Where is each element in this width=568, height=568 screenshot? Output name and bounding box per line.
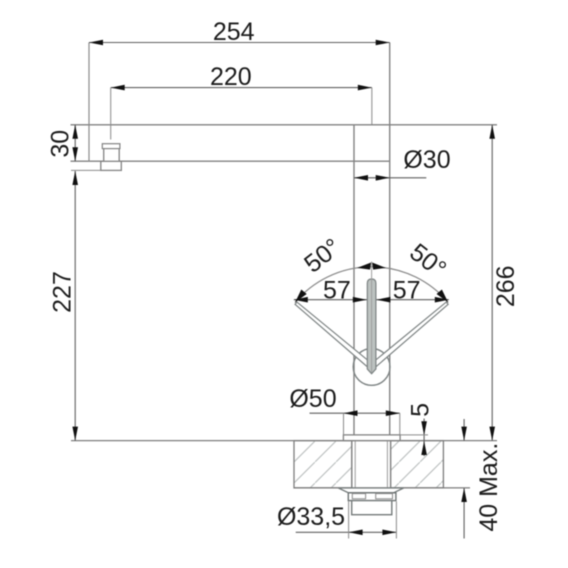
handle lever tilted left — [295, 302, 373, 369]
svg-text:Ø50: Ø50 — [289, 385, 336, 413]
dim 220 arrows — [111, 85, 125, 91]
dim O30 arrows — [354, 175, 368, 181]
dim 5 line — [423, 419, 425, 457]
mounting nut — [348, 493, 396, 501]
svg-text:57: 57 — [393, 276, 421, 304]
dim 254 arrows — [89, 40, 103, 46]
dim 266 line — [491, 125, 493, 441]
base plate (escutcheon) — [343, 435, 400, 441]
svg-text:30: 30 — [47, 130, 75, 158]
handle ball joint circle — [353, 349, 390, 386]
handle lever tilted right — [370, 302, 448, 369]
shank outer thread lines through countertop — [351, 441, 353, 488]
dim 227 top extension (aerator bottom) — [71, 169, 101, 171]
dim 30 arrows — [72, 125, 78, 139]
dim 57 arrows — [294, 297, 308, 303]
dim 40 Max arrows — [461, 427, 467, 441]
nut slot right — [376, 494, 393, 499]
dim O33,5 line — [296, 531, 397, 533]
dim O33,5 arrows — [349, 530, 363, 536]
handle lever vertical — [367, 279, 376, 374]
dim 254 line — [89, 42, 390, 44]
svg-text:266: 266 — [492, 265, 520, 307]
svg-text:40 Max.: 40 Max. — [475, 443, 503, 532]
dim 266 arrows — [489, 125, 495, 139]
svg-text:Ø33,5: Ø33,5 — [277, 503, 345, 531]
faucet column left edge — [353, 125, 355, 435]
dim 40 Max line upper segment — [463, 419, 465, 441]
spout left edge / 254 extension line — [88, 43, 90, 162]
countertop bottom line (extends right to 40 Max dim) — [294, 487, 470, 489]
aerator upper body — [104, 149, 120, 162]
dim 40 Max line lower segment — [463, 488, 465, 539]
shank tail below nut — [352, 501, 392, 515]
angular arc arrow apex left — [357, 262, 371, 269]
aerator lower body — [101, 161, 122, 170]
dim O50 line — [310, 412, 400, 414]
angular arc arrow end left — [295, 290, 307, 303]
spout top outline line (with left + right extension) — [71, 124, 498, 126]
clamping washer below countertop — [338, 488, 403, 493]
spout bottom outline line (with left extension) — [71, 160, 390, 162]
handle swing arc — [295, 267, 448, 303]
nut slot left — [352, 494, 365, 499]
svg-text:227: 227 — [48, 271, 76, 313]
svg-text:Ø30: Ø30 — [403, 146, 450, 174]
angular arc arrow end right — [437, 290, 449, 303]
57 dimension line — [294, 299, 449, 301]
faucet column right edge / 254 right extension — [389, 43, 391, 435]
lever centerline tick — [371, 262, 373, 373]
dim 227 arrows — [72, 171, 78, 185]
dim O50 extension lines — [343, 413, 345, 435]
svg-text:57: 57 — [323, 276, 351, 304]
dim 5 arrows — [421, 421, 427, 435]
dim 220 line — [111, 87, 372, 89]
dim O50 arrows — [344, 410, 358, 416]
svg-text:5: 5 — [407, 403, 435, 417]
dim 30 line — [74, 125, 76, 161]
dim 220 extension lines — [110, 88, 112, 140]
countertop hatched block left — [294, 441, 352, 488]
countertop hatched block right — [391, 441, 444, 488]
dim O33,5 extension lines — [348, 502, 350, 539]
aerator lip — [102, 144, 120, 149]
countertop top surface line (extends left to 227 dim and right to 266/40 dims) — [71, 440, 497, 442]
svg-text:254: 254 — [213, 18, 255, 46]
angular arc arrow apex right — [372, 262, 386, 269]
dim 5 extension line (plate top) — [400, 434, 428, 436]
svg-text:220: 220 — [210, 63, 252, 91]
dim 227 line — [74, 171, 76, 441]
dim O30 leader line — [354, 177, 426, 179]
shank inner pipe lines through countertop — [354, 441, 356, 488]
